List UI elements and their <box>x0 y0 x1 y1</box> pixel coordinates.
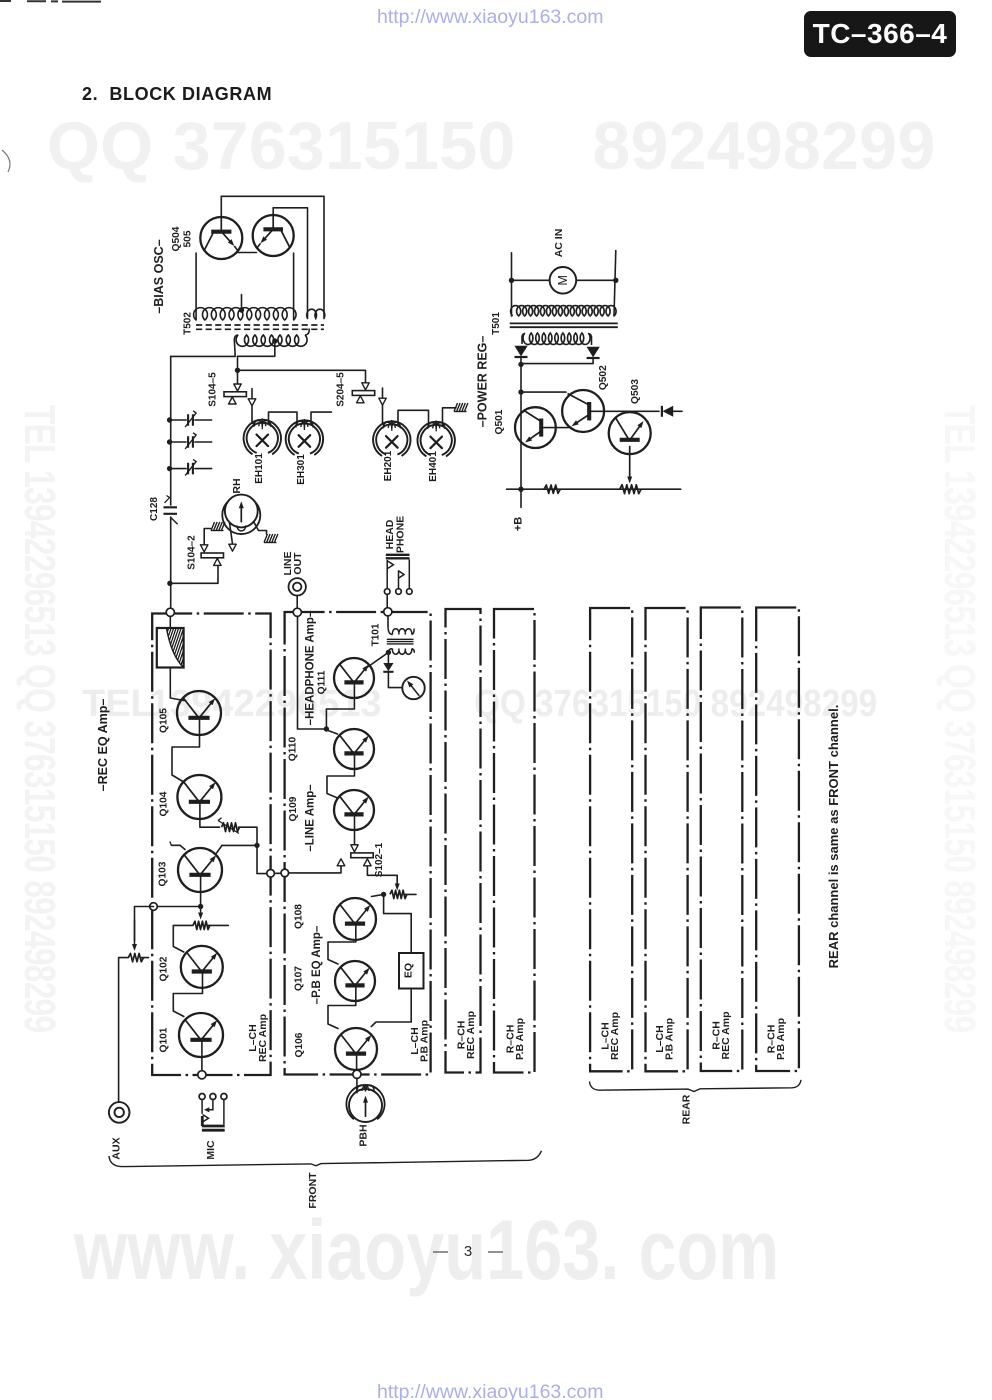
watermark right edge <box>934 405 984 1032</box>
block REAR L-CH REC Amp <box>590 608 632 1071</box>
erase head EH101 <box>244 418 281 454</box>
svg-text:FRONT: FRONT <box>307 1172 319 1209</box>
junction bias feed <box>235 368 240 373</box>
svg-text:Q101: Q101 <box>159 1027 170 1052</box>
wire Q107 to Q106 <box>328 987 356 1029</box>
wire EH101-EH301 <box>269 412 298 424</box>
svg-text:–P.B EQ Amp–: –P.B EQ Amp– <box>311 925 323 1004</box>
transformer T501 primary <box>511 306 616 316</box>
wire junction to Q110 <box>328 731 338 735</box>
junction rail-S104-2 <box>167 581 172 586</box>
block R-CH REC Amp <box>446 609 481 1073</box>
wire node to box <box>169 616 171 628</box>
svg-text:P.B Amp: P.B Amp <box>514 1018 526 1060</box>
svg-text:Q108: Q108 <box>294 904 305 929</box>
wire link between blocks <box>271 872 281 874</box>
wire to Q102 base <box>173 925 193 952</box>
contact S102-1 right <box>364 859 372 866</box>
transistor Q102 <box>181 946 223 988</box>
wire tap down-left <box>238 341 275 356</box>
svg-text:S102–1: S102–1 <box>374 842 385 877</box>
wire junction to EQ <box>384 894 412 953</box>
resistor R502 <box>620 485 641 494</box>
wire S102-1 to EQ chain <box>367 866 397 884</box>
svg-text:REC Amp: REC Amp <box>720 1011 732 1059</box>
svg-text:RH: RH <box>231 478 243 493</box>
wire Q505 collector feedback <box>273 208 307 319</box>
svg-text:EH401: EH401 <box>428 451 439 482</box>
wire bottom resistor line <box>507 488 681 490</box>
transformer T502 primary <box>194 308 296 320</box>
watermark bottom www.xiaoyu163.com <box>74 1202 779 1299</box>
wire Q103 down <box>200 876 202 907</box>
wire headphone to node <box>386 594 388 608</box>
resistor PB level <box>390 890 407 898</box>
wire Q102 to Q101 <box>173 972 202 1016</box>
diode D503 <box>661 406 663 417</box>
svg-text:S204–5: S204–5 <box>336 372 347 407</box>
wire AUX resistor stub <box>141 957 148 959</box>
erase head EH201 <box>373 420 410 456</box>
wire AC right <box>614 251 616 317</box>
transistor Q109 <box>334 790 374 830</box>
junction Q502 base feed <box>518 389 523 394</box>
connector MIC <box>199 1094 227 1131</box>
svg-text:–POWER REG–: –POWER REG– <box>475 336 489 428</box>
wire diode D503 stub <box>673 410 682 412</box>
junction diodes <box>518 362 523 367</box>
block REAR R-CH P.B Amp <box>756 608 799 1072</box>
transformer T101 <box>387 626 414 654</box>
junction Q110 base <box>324 726 329 731</box>
svg-text:Q111: Q111 <box>317 670 328 694</box>
svg-text:–BIAS OSC–: –BIAS OSC– <box>152 239 166 313</box>
wire Q104 out <box>200 803 220 828</box>
transformer T502 core dashes <box>196 324 324 326</box>
svg-text:EQ: EQ <box>403 963 415 978</box>
transistor Q108 <box>334 898 376 940</box>
junction B+ <box>518 487 523 492</box>
wire scan arc left edge <box>2 150 10 172</box>
transistor Q110 <box>334 729 374 769</box>
wire into EH201 <box>383 405 385 426</box>
svg-text:REAR: REAR <box>681 1094 693 1124</box>
box EQ <box>399 953 424 989</box>
wire Q108 arrow to junction <box>372 894 384 896</box>
svg-text:T502: T502 <box>183 312 194 335</box>
wire Q106 down <box>356 1055 358 1071</box>
wire to motor <box>512 279 550 281</box>
svg-text:REC Amp: REC Amp <box>465 1011 477 1059</box>
transformer T501 secondary <box>523 333 590 344</box>
transformer T501 core <box>510 323 618 327</box>
resistor AUX level <box>128 953 143 961</box>
wire AUX to jack <box>119 958 129 1102</box>
record head RH <box>222 495 260 534</box>
page number <box>433 1243 506 1260</box>
junction T101 out <box>386 650 391 655</box>
node block1 bottom <box>198 1071 206 1079</box>
svg-text:AC IN: AC IN <box>553 229 565 258</box>
block REAR R-CH REC Amp <box>701 608 743 1072</box>
svg-text:+B: +B <box>513 517 525 531</box>
level indicator box <box>150 627 202 668</box>
wire +B stub <box>520 489 522 507</box>
svg-text:EH201: EH201 <box>383 450 394 481</box>
wire to block2 link <box>239 827 268 873</box>
svg-text:OUT: OUT <box>292 552 304 575</box>
wire Q110 to Q109 <box>327 755 355 799</box>
wire to Q502 base <box>521 391 566 393</box>
wire Q504 side to T502 <box>195 253 197 320</box>
wire S104-2 to rail <box>172 565 219 583</box>
contact arrow S104-2 <box>200 545 208 552</box>
playback head PBH <box>346 1085 384 1122</box>
jack HEADPHONE <box>386 555 410 559</box>
wire feed EH101 <box>251 389 253 399</box>
wire box to Q105 <box>170 668 184 701</box>
transistor Q104 <box>177 775 221 819</box>
node T502 secondary tap <box>272 338 277 343</box>
brace FRONT <box>109 1151 542 1167</box>
wire Q109 to S102-1 <box>354 816 356 845</box>
ground RH <box>264 534 278 543</box>
transistor Q101 <box>179 1013 223 1057</box>
resistor rec level <box>222 823 240 832</box>
wire Q502 emitter to Q501 base <box>544 427 572 429</box>
node HEADPHONE border <box>384 608 392 616</box>
transistor Q103 <box>178 848 222 892</box>
svg-text:Q107: Q107 <box>294 966 305 991</box>
svg-text:Q503: Q503 <box>630 379 641 404</box>
contact arrow S204-5 <box>362 383 369 390</box>
wire RH to contact <box>230 523 233 545</box>
watermark left edge <box>14 405 64 1032</box>
wire Q103 base stub <box>171 845 185 849</box>
brace REAR <box>590 1080 802 1092</box>
wire diode to meter <box>388 672 402 688</box>
junction motor right <box>613 278 618 283</box>
transistor Q503 <box>609 412 651 454</box>
svg-text:C128: C128 <box>149 497 160 521</box>
svg-text:Q501: Q501 <box>494 409 505 434</box>
diode D501 left <box>514 346 527 357</box>
diode D502 right <box>587 347 600 358</box>
node block2 bottom <box>353 1070 361 1078</box>
wire B+ rail <box>520 357 522 489</box>
switch S104-2 <box>201 553 223 558</box>
transistor Q501 <box>515 407 556 448</box>
svg-text:S104–2: S104–2 <box>187 535 198 570</box>
wire Q111 collector to T101 <box>366 652 389 668</box>
wire Q105 to Q104 <box>172 719 200 783</box>
wire resistor stub right <box>208 924 228 926</box>
title <box>82 84 272 105</box>
wire left rail upper <box>170 356 172 505</box>
wire scan marks top edge <box>0 0 101 3</box>
block L-CH REC Amp <box>152 614 270 1076</box>
transformer T502 secondary <box>236 335 307 346</box>
wire LINE OUT node down <box>298 616 325 729</box>
svg-text:Q106: Q106 <box>294 1032 305 1057</box>
node LINE OUT border <box>293 608 301 616</box>
wire left rail lower <box>170 517 172 609</box>
wire to AUX attenuator <box>135 906 154 908</box>
wire EH301 stub <box>311 412 332 425</box>
wire EH401 to ground <box>443 408 457 426</box>
wire RH to ground <box>254 522 267 535</box>
capacitor trimmer 1 <box>167 411 212 427</box>
svg-text:P.B Amp: P.B Amp <box>664 1018 676 1060</box>
resistor R501 <box>544 485 560 493</box>
svg-text:T501: T501 <box>491 312 502 335</box>
node rail into block <box>166 608 174 616</box>
wire motor to right <box>576 279 616 281</box>
wire Q505 side to T502 <box>293 253 295 320</box>
svg-text:P.B Amp: P.B Amp <box>418 1020 430 1062</box>
wire AC left <box>511 253 513 316</box>
url top <box>377 6 604 29</box>
wire right diode join <box>522 358 594 363</box>
wire headphone node to T101 <box>387 616 389 626</box>
transistor Q107 <box>335 961 375 1001</box>
block REAR L-CH P.B Amp <box>646 608 688 1071</box>
wire LINE OUT to node <box>296 596 298 609</box>
model tag TC-366-4 <box>804 11 956 57</box>
jack LINE OUT <box>289 578 306 595</box>
svg-text:M: M <box>556 275 570 285</box>
motor M <box>550 267 577 294</box>
diode D101 <box>387 652 389 662</box>
node block1 right border <box>267 870 275 878</box>
wire Q503 emitter down <box>629 447 631 477</box>
node block1 left border <box>150 903 158 911</box>
svg-text:REAR channel is same as F: REAR channel is same as FRONT channel. <box>826 705 841 969</box>
wire Q111 emitter to junction <box>326 683 354 727</box>
svg-text:P.B Amp: P.B Amp <box>775 1018 787 1060</box>
jack AUX <box>109 1102 130 1123</box>
contact arrow S104-5 <box>234 384 241 391</box>
svg-text:REC Amp: REC Amp <box>257 1014 269 1062</box>
svg-text:Q104: Q104 <box>159 791 170 816</box>
wire Q502 collector line <box>589 410 659 412</box>
wire secondary to left rail <box>171 355 236 357</box>
contact S104-2 pole <box>214 558 222 565</box>
svg-text:S104–5: S104–5 <box>208 372 219 407</box>
svg-text:AUX: AUX <box>111 1137 123 1159</box>
svg-text:–REC EQ Amp–: –REC EQ Amp– <box>96 699 110 792</box>
svg-text:Q110: Q110 <box>288 736 299 761</box>
capacitor C128 <box>164 507 178 514</box>
erase head EH401 <box>418 420 455 456</box>
svg-text:REC Amp: REC Amp <box>609 1012 621 1060</box>
wire Q504 stem <box>220 196 222 215</box>
url bottom <box>377 1381 604 1400</box>
meter VU <box>402 677 424 699</box>
svg-text:PHONE: PHONE <box>395 516 407 553</box>
wire T502 primary center tap <box>241 295 243 313</box>
ground S104-2 <box>211 522 225 531</box>
wire EH201-EH401 <box>398 410 429 426</box>
svg-text:T101: T101 <box>371 623 382 646</box>
svg-text:Q504: Q504 <box>171 226 182 251</box>
svg-text:EH101: EH101 <box>254 453 265 484</box>
wire ground to S104-2 <box>204 529 210 546</box>
resistor Q102 load <box>193 921 210 929</box>
node block2 left border <box>281 869 289 877</box>
transistor Q106 <box>335 1028 377 1070</box>
wire Q108 to Q107 <box>328 925 356 965</box>
wire into EH101 <box>252 406 255 426</box>
transistor Q502 <box>562 390 604 432</box>
svg-text:Q109: Q109 <box>288 796 299 821</box>
wire Q101 to mic node <box>201 1041 203 1072</box>
svg-text:PBH: PBH <box>358 1124 370 1146</box>
switch S102-1 <box>351 853 373 858</box>
junction motor left <box>509 278 514 283</box>
contact S104-5 pole <box>229 397 237 404</box>
transistor Q105 <box>177 691 221 735</box>
svg-text:EH301: EH301 <box>296 454 307 485</box>
transformer T502 feedback turn <box>307 309 325 318</box>
svg-text:Q102: Q102 <box>159 956 170 981</box>
wire link to S102-1 <box>289 866 341 873</box>
watermark middle row <box>82 683 154 726</box>
contact S102-1 left <box>337 859 345 866</box>
svg-text:Q103: Q103 <box>158 861 169 886</box>
wire EQ to Q106 <box>371 989 411 1027</box>
wire emitter bridge Q504-Q505 <box>238 252 257 254</box>
svg-text:–HEADPHONE Amp–: –HEADPHONE Amp– <box>305 610 317 725</box>
switch S104-5 <box>224 392 246 397</box>
contact S204-5 pole <box>357 396 365 403</box>
wire Q505 stem <box>272 208 274 213</box>
wire feed EH201 <box>382 388 384 398</box>
capacitor trimmer 3 <box>167 459 212 475</box>
wire Q504 collector feedback <box>221 196 324 318</box>
svg-text:Q502: Q502 <box>598 365 609 390</box>
switch S204-5 <box>352 391 374 396</box>
watermark top row <box>47 107 935 185</box>
block L-CH P.B Amp <box>285 612 431 1075</box>
wire Q103 collector link <box>222 844 257 846</box>
ground erase line <box>454 403 468 412</box>
capacitor trimmer 2 <box>167 433 212 449</box>
svg-text:MIC: MIC <box>205 1140 217 1160</box>
wire to PBH <box>356 1078 358 1092</box>
junction Q103 out <box>254 843 259 848</box>
wire to S204-5 <box>238 370 366 383</box>
svg-text:Q105: Q105 <box>159 708 170 733</box>
transistor Q505 <box>253 213 294 256</box>
transistor Q111 <box>334 658 374 698</box>
arrow onto resistor <box>200 907 202 913</box>
svg-text:505: 505 <box>183 230 194 247</box>
transistor Q504 <box>200 215 242 259</box>
block R-CH P.B Amp <box>494 609 535 1073</box>
junction Q108 collector <box>381 892 386 897</box>
wire to S104-5 <box>237 356 239 384</box>
svg-text:–LINE Amp–: –LINE Amp– <box>305 784 317 852</box>
wire border to junction <box>157 906 200 908</box>
wire resistor stub <box>405 893 416 895</box>
erase head EH301 <box>286 419 323 455</box>
